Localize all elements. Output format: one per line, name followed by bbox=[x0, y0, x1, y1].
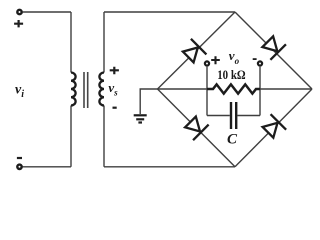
bridge edge: top node to right node bbox=[235, 12, 312, 89]
label - at secondary bbox=[113, 107, 117, 109]
wire secondary top lead bbox=[103, 12, 105, 73]
label + at input top bbox=[14, 20, 23, 27]
input terminal bottom-left bbox=[17, 165, 21, 169]
label - at input bottom bbox=[17, 157, 22, 159]
diode D3 (left node to bottom node) bbox=[183, 114, 209, 140]
bridge edge: bottom node to right node bbox=[235, 89, 312, 167]
bridge edge: top node to left node bbox=[158, 12, 236, 89]
capacitor C left lead bbox=[207, 115, 230, 117]
wire left node to ground bbox=[140, 89, 157, 114]
label + at output bbox=[211, 56, 220, 64]
capacitor C right lead bbox=[237, 115, 260, 117]
capacitor C plates bbox=[231, 102, 236, 129]
wire secondary top to bridge top node bbox=[104, 11, 235, 13]
wire primary bottom lead bbox=[70, 106, 72, 167]
svg-text:C: C bbox=[227, 131, 238, 147]
output terminal - bbox=[258, 61, 262, 65]
diode D4 (bottom node to right node) bbox=[260, 114, 286, 140]
diode D2 (top node to right node) bbox=[260, 34, 286, 60]
label - at output bbox=[253, 58, 257, 60]
wire secondary bottom to bridge bottom node bbox=[104, 166, 235, 168]
transformer primary winding bbox=[71, 73, 76, 106]
wire load to right node bbox=[260, 88, 312, 90]
ground bbox=[134, 115, 147, 122]
label + at secondary bbox=[110, 67, 119, 74]
output terminal + bbox=[205, 61, 209, 65]
wire input bottom bbox=[23, 166, 71, 168]
svg-text:10 kΩ: 10 kΩ bbox=[217, 67, 246, 82]
diode D1 (left node to top node) bbox=[180, 39, 206, 65]
transformer secondary winding bbox=[99, 73, 104, 106]
resistor R 10 kOhm bbox=[207, 84, 260, 93]
transformer core bbox=[84, 72, 88, 108]
wire secondary bottom lead bbox=[103, 106, 105, 167]
wire input top bbox=[23, 11, 71, 13]
wire primary top lead bbox=[70, 12, 72, 73]
load left rail bbox=[206, 67, 208, 116]
wire left node to load bbox=[158, 88, 208, 90]
input terminal top-left bbox=[17, 10, 21, 14]
load right rail bbox=[259, 67, 261, 116]
bridge edge: bottom node to left node bbox=[158, 89, 236, 167]
